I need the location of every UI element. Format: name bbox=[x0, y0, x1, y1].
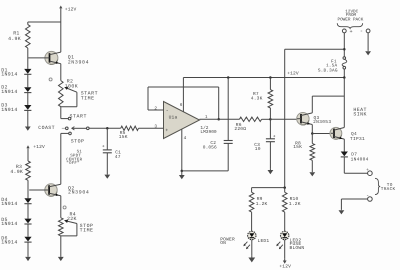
wire D1 to D2 bbox=[27, 75, 29, 88]
wire R10 to LED2 bbox=[284, 212, 286, 231]
transistor Q1 2N3904 bbox=[28, 22, 89, 81]
svg-text:3: 3 bbox=[154, 125, 157, 130]
svg-text:1N914: 1N914 bbox=[1, 221, 17, 227]
power +12V symbol (mid left) bbox=[26, 144, 45, 161]
svg-text:COAST: COAST bbox=[38, 125, 55, 131]
resistor R5 15K bbox=[119, 126, 139, 140]
power +12V symbol (top left) bbox=[59, 6, 76, 23]
svg-text:15K: 15K bbox=[119, 134, 128, 140]
svg-text:+12V: +12V bbox=[65, 6, 77, 12]
svg-text:1N914: 1N914 bbox=[1, 201, 17, 207]
wire - terminal to ground bbox=[367, 33, 369, 51]
resistor R7 4.3K bbox=[251, 78, 273, 120]
wire D2 to D3 bbox=[27, 93, 29, 105]
transistor Q2 2N3904 bbox=[29, 184, 89, 218]
LED2 FUSE BLOWN bbox=[276, 231, 304, 251]
ground below C1 bbox=[104, 153, 110, 179]
resistor R3 4.9K bbox=[10, 161, 30, 180]
marker circle near Q2 emitter bbox=[63, 206, 66, 209]
diode D4 1N914 bbox=[1, 197, 31, 207]
marker circle near Q1 emitter bbox=[49, 78, 52, 81]
resistor R6 220 ohm bbox=[234, 117, 261, 132]
wire fuse to +12V rail bbox=[343, 69, 346, 79]
wire +12V rail (fused) bbox=[183, 76, 344, 79]
wire Q3 emitter to Q4 base bbox=[312, 133, 331, 135]
label 12VDC FROM POWER PACK bbox=[338, 9, 364, 22]
diode D2 1N914 bbox=[1, 85, 31, 95]
wire R5 to op-amp pin 3 bbox=[139, 127, 164, 129]
ground below R8 bbox=[309, 160, 315, 176]
diode D6 1N914 bbox=[1, 235, 31, 245]
terminal - power pack bbox=[360, 28, 370, 35]
wire op-amp pin 4 to ground bbox=[181, 129, 187, 172]
resistor R9 1.2K bbox=[249, 188, 267, 213]
svg-text:ON: ON bbox=[220, 240, 226, 246]
svg-text:LM3900: LM3900 bbox=[200, 129, 217, 135]
wire op-amp output bbox=[200, 118, 240, 120]
svg-text:2N3904: 2N3904 bbox=[68, 59, 90, 65]
wire Q3 collector to fused +12V bbox=[312, 96, 344, 113]
wire + terminal down bbox=[343, 33, 346, 57]
svg-text:R10: R10 bbox=[290, 196, 299, 202]
ground below D3 bbox=[25, 111, 31, 131]
wire - track terminal to ground bbox=[341, 199, 367, 210]
node output feedback junction bbox=[217, 118, 220, 121]
resistor R10 1.2K bbox=[282, 188, 300, 213]
svg-text:+12V: +12V bbox=[287, 70, 299, 76]
wire pin4 node to C2 bottom bbox=[182, 170, 228, 172]
switch S1 SPDT center-off bbox=[62, 127, 89, 167]
label COAST bbox=[38, 125, 55, 131]
transistor Q3 2N3053 bbox=[297, 113, 332, 126]
svg-text:2N3904: 2N3904 bbox=[68, 190, 90, 196]
terminal + to track bbox=[366, 168, 372, 175]
capacitor C3 10 bbox=[254, 119, 276, 169]
svg-text:+12V: +12V bbox=[279, 264, 291, 270]
wire feedback pin2 loop bbox=[148, 87, 219, 119]
node START contact bbox=[68, 114, 87, 120]
power +12V symbol below LED2 bbox=[279, 240, 291, 270]
svg-text:SINK: SINK bbox=[353, 112, 367, 118]
wire Q4 collector to fuse rail bbox=[343, 78, 345, 128]
wire R9 to LED1 bbox=[251, 212, 253, 231]
svg-text:1N4004: 1N4004 bbox=[351, 156, 369, 162]
svg-text:22K: 22K bbox=[67, 216, 77, 222]
diode D1 1N914 bbox=[1, 68, 31, 78]
wire R6 to C3 node bbox=[262, 118, 271, 120]
wire top-left +12V rail bbox=[28, 21, 61, 23]
potentiometer R4 22K STOP TIME bbox=[59, 212, 94, 236]
svg-text:1N914: 1N914 bbox=[1, 239, 17, 245]
terminal + power pack bbox=[342, 29, 352, 35]
node STOP contact bbox=[69, 132, 85, 144]
svg-text:R9: R9 bbox=[257, 196, 263, 202]
svg-text:+: + bbox=[165, 128, 168, 133]
svg-text:1N914: 1N914 bbox=[1, 72, 17, 78]
svg-text:4.3K: 4.3K bbox=[251, 95, 263, 101]
svg-text:4: 4 bbox=[184, 136, 187, 141]
wire D5 to D6 bbox=[27, 224, 29, 237]
svg-text:0.056: 0.056 bbox=[203, 144, 217, 150]
svg-text:R1: R1 bbox=[13, 31, 19, 37]
ground below - terminal bbox=[365, 51, 371, 56]
op-amp U1a 1/2 LM3900 bbox=[164, 102, 217, 139]
resistor R1 4.9K bbox=[8, 22, 30, 48]
svg-text:+: + bbox=[102, 144, 105, 149]
svg-text:2: 2 bbox=[154, 107, 157, 112]
capacitor C2 0.056 bbox=[203, 78, 233, 171]
node R6/R7/C3 junction bbox=[269, 118, 272, 121]
svg-text:BLOWN: BLOWN bbox=[290, 245, 305, 251]
wire unfused +12 branch bbox=[285, 49, 345, 187]
svg-text:STOP: STOP bbox=[71, 138, 85, 144]
svg-text:15K: 15K bbox=[293, 144, 302, 150]
ground below D6 bbox=[25, 242, 31, 261]
diode D3 1N914 bbox=[1, 103, 31, 113]
diode D5 1N914 bbox=[1, 217, 31, 227]
svg-text:S.B.3AG: S.B.3AG bbox=[318, 69, 338, 74]
wire op-amp pin 2 input bbox=[148, 107, 164, 112]
ground below LED1 bbox=[248, 240, 255, 263]
wire R3 bottom to D4 bbox=[27, 180, 29, 198]
svg-text:1N914: 1N914 bbox=[1, 89, 17, 95]
capacitor C1 47 bbox=[102, 128, 121, 160]
label +12V rail bbox=[287, 70, 299, 76]
svg-text:+: + bbox=[366, 168, 369, 173]
svg-text:+: + bbox=[350, 29, 353, 35]
pin 3 label bbox=[154, 125, 157, 130]
svg-text:4.9K: 4.9K bbox=[8, 36, 21, 42]
svg-text:TIP31: TIP31 bbox=[350, 136, 365, 142]
wire R2 bottom to START contact bbox=[61, 107, 68, 119]
svg-text:+12V: +12V bbox=[33, 144, 45, 150]
wire LED bus bbox=[252, 186, 286, 189]
wire C3 node to Q3 base bbox=[270, 118, 297, 120]
svg-text:LED1: LED1 bbox=[258, 238, 270, 244]
svg-text:+: + bbox=[273, 134, 276, 139]
svg-text:10: 10 bbox=[255, 146, 261, 152]
svg-text:-: - bbox=[166, 108, 169, 114]
wire STOP contact down to Q2 collector bbox=[61, 133, 69, 184]
wire D4 to D5 bbox=[27, 204, 29, 219]
svg-text:1N914: 1N914 bbox=[1, 107, 17, 113]
svg-text:2N3053: 2N3053 bbox=[313, 119, 331, 125]
wire switch common to R5 node bbox=[89, 127, 121, 130]
node Q3 emitter junction bbox=[311, 125, 314, 135]
ground below R4 bbox=[58, 236, 64, 261]
svg-text:TRACK: TRACK bbox=[381, 187, 396, 192]
ground below C3 bbox=[268, 169, 274, 174]
wire pin 6 to +12V rail bbox=[180, 78, 184, 112]
svg-text:U1a: U1a bbox=[169, 114, 178, 120]
svg-text:47: 47 bbox=[115, 154, 121, 160]
svg-text:6: 6 bbox=[180, 103, 183, 108]
diode D7 1N4004 bbox=[341, 152, 369, 163]
svg-text:1.2K: 1.2K bbox=[289, 201, 301, 207]
svg-text:1.2K: 1.2K bbox=[256, 201, 268, 207]
label HEAT SINK bbox=[353, 107, 367, 118]
LED1 POWER ON bbox=[220, 231, 269, 249]
ground below - track terminal bbox=[339, 210, 345, 215]
ground below op-amp pin 4 bbox=[179, 171, 185, 179]
svg-text:TIME: TIME bbox=[80, 228, 94, 234]
fuse F1 1.5A S.B.3AG bbox=[318, 57, 347, 74]
wire D7 to + track terminal bbox=[344, 157, 367, 173]
transistor Q4 TIP31 bbox=[330, 127, 365, 151]
svg-text:220Ω: 220Ω bbox=[234, 126, 246, 132]
brace TO TRACK bbox=[375, 178, 396, 194]
pin 1 label bbox=[205, 115, 208, 120]
brace under power pack label bbox=[337, 23, 363, 28]
resistor R8 15K bbox=[293, 134, 314, 161]
svg-text:TIME: TIME bbox=[81, 95, 95, 101]
svg-text:-: - bbox=[360, 28, 363, 35]
wire R1 bottom to D1 bbox=[27, 48, 29, 69]
potentiometer R2 100K START TIME bbox=[59, 78, 99, 106]
svg-text:START: START bbox=[70, 114, 87, 120]
terminal - to track bbox=[366, 193, 372, 201]
svg-text:4.9K: 4.9K bbox=[10, 169, 23, 175]
svg-text:-: - bbox=[366, 193, 369, 199]
svg-text:POWER PACK: POWER PACK bbox=[338, 17, 364, 22]
